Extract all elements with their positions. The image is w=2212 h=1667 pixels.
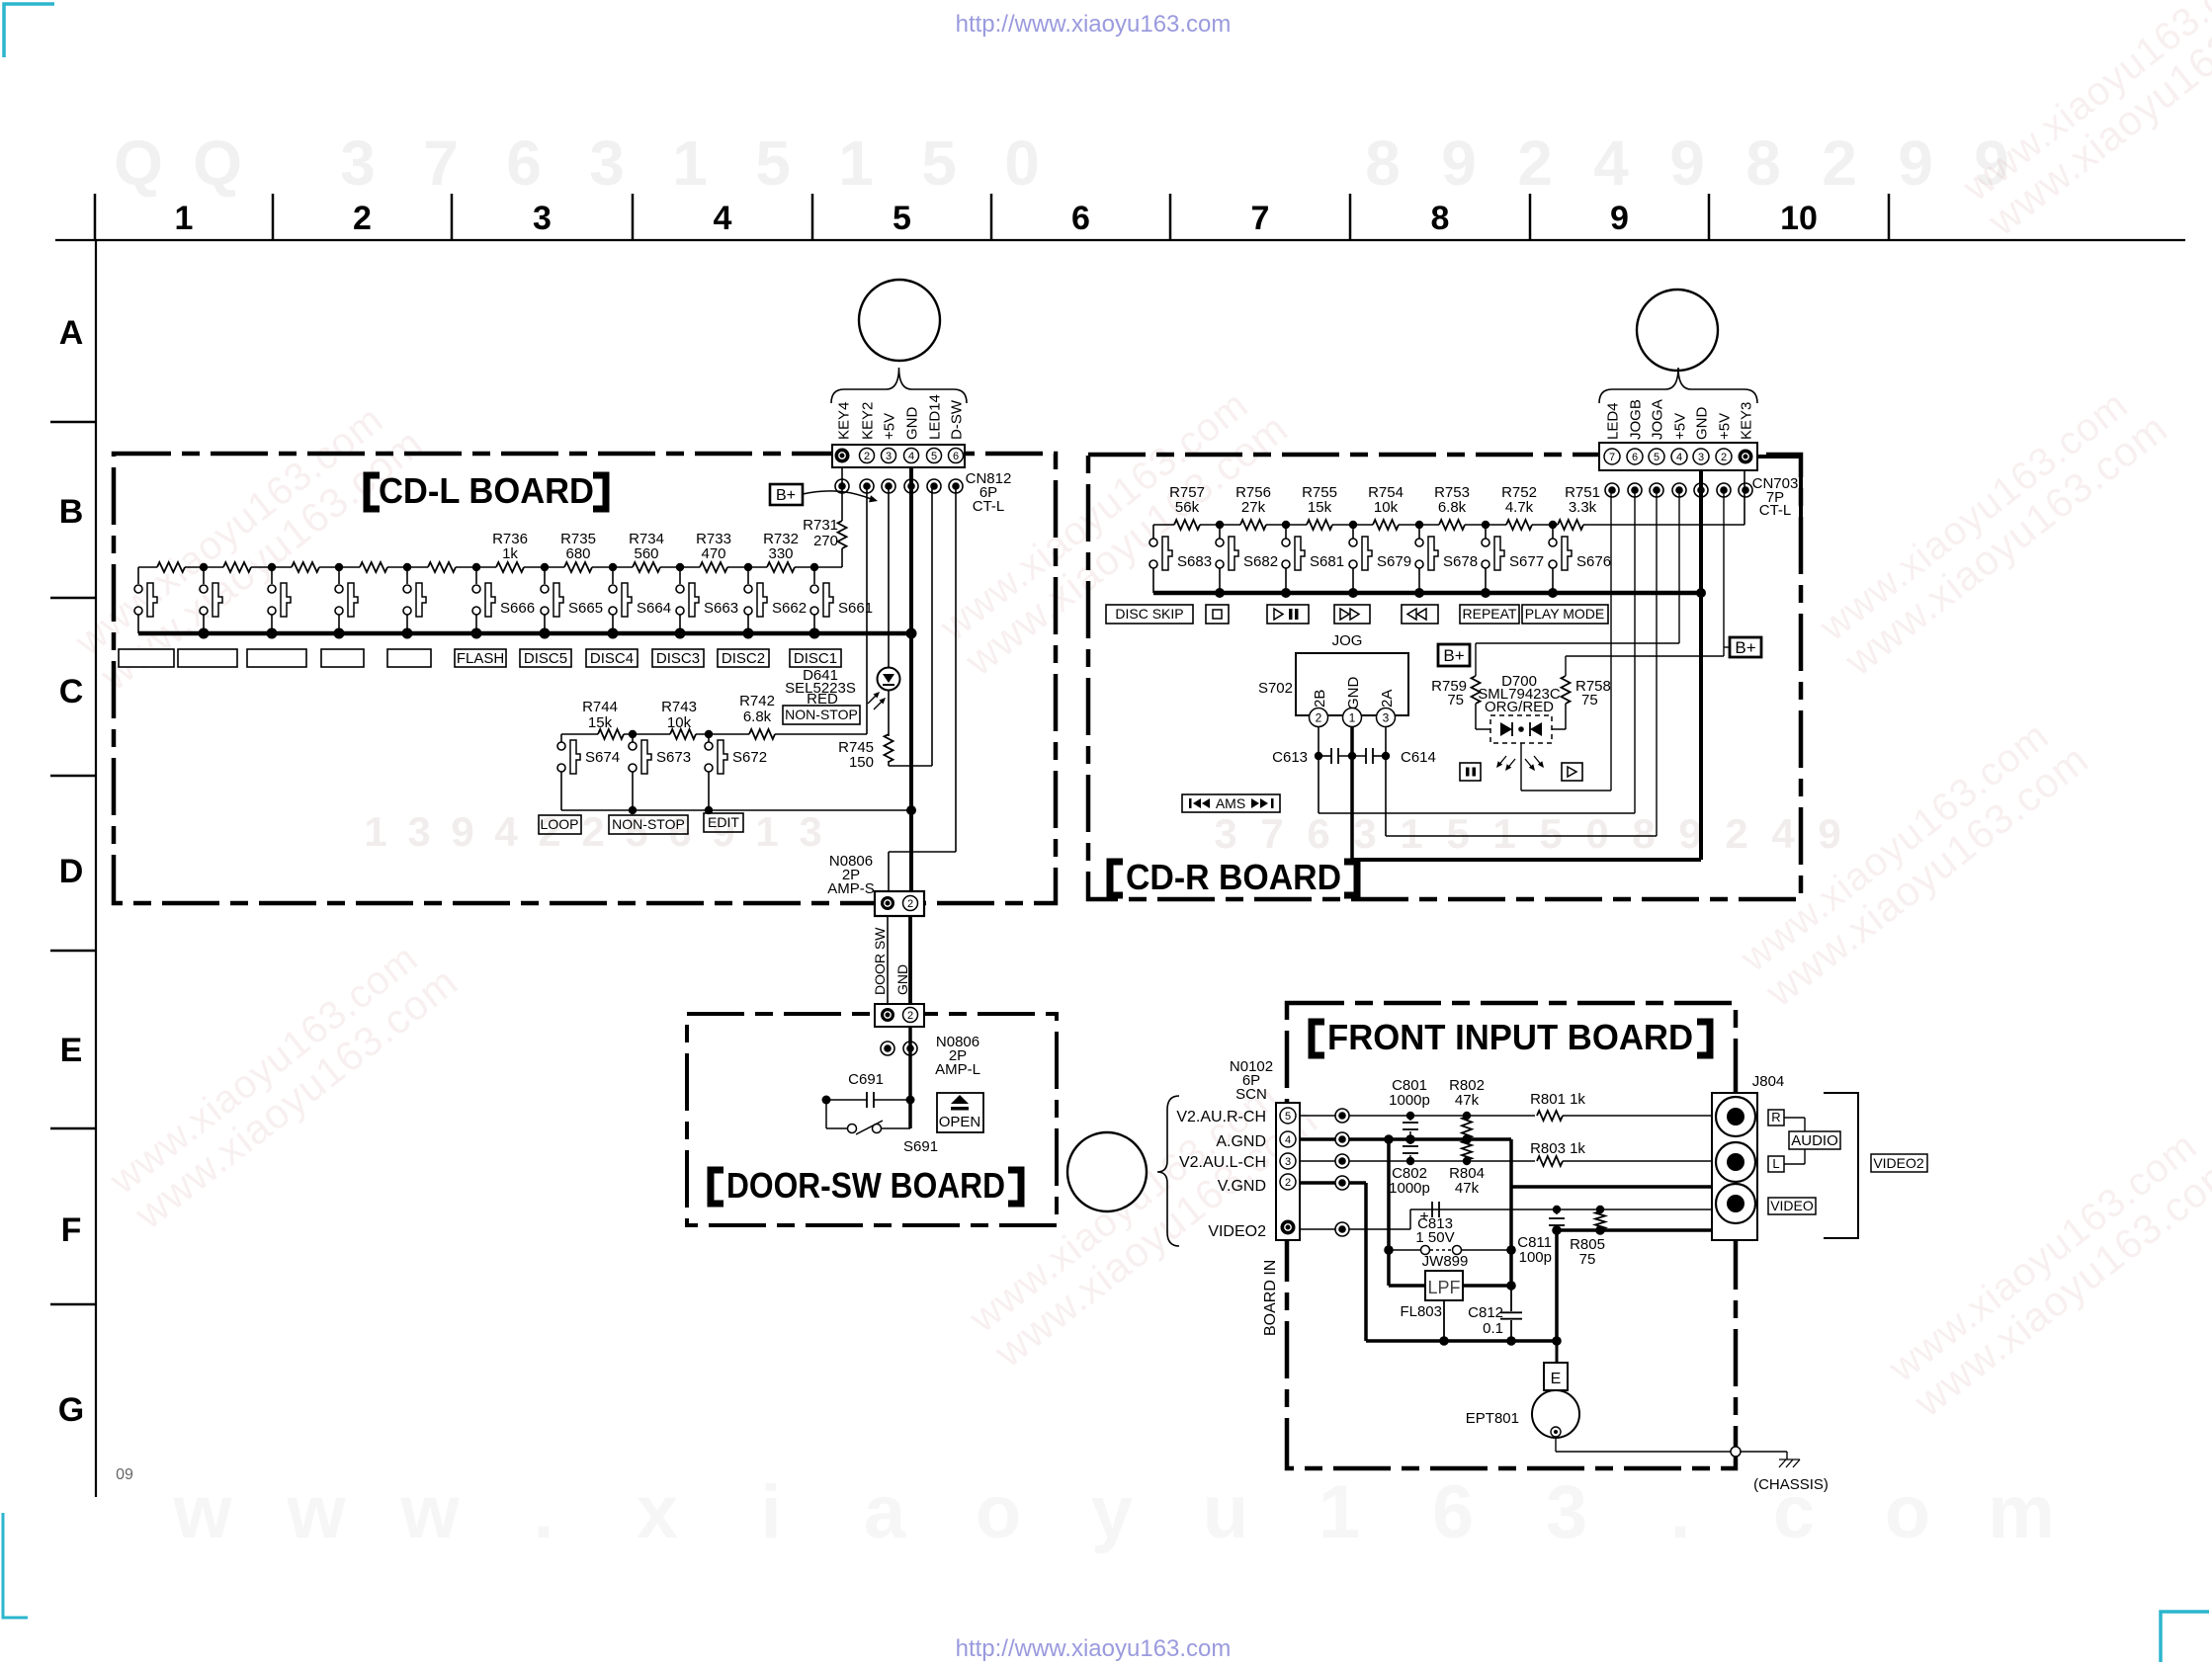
svg-text:GND: GND (1694, 407, 1711, 441)
svg-text:F: F (61, 1211, 82, 1249)
svg-text:1: 1 (175, 200, 194, 237)
svg-text:9: 9 (451, 808, 473, 855)
svg-text:09: 09 (116, 1466, 133, 1483)
svg-text:1 50V: 1 50V (1415, 1229, 1454, 1246)
svg-text:9: 9 (1678, 810, 1701, 857)
svg-text:6.8k: 6.8k (743, 708, 772, 725)
svg-text:FL803: FL803 (1400, 1303, 1442, 1320)
svg-text:5: 5 (921, 127, 957, 199)
svg-text:3: 3 (1383, 710, 1390, 724)
svg-text:3: 3 (589, 127, 625, 199)
svg-text:1k: 1k (502, 545, 518, 562)
svg-text:S676: S676 (1576, 553, 1611, 570)
svg-text:L: L (1772, 1156, 1779, 1171)
svg-text:1: 1 (1349, 710, 1356, 724)
svg-text:.: . (533, 1470, 553, 1554)
svg-text:3: 3 (1698, 452, 1704, 463)
svg-text:DISC5: DISC5 (524, 650, 567, 667)
svg-text:9: 9 (1441, 127, 1477, 199)
svg-text:GND: GND (894, 964, 910, 995)
svg-text:2: 2 (907, 1010, 913, 1022)
svg-text:GND: GND (904, 407, 921, 441)
svg-text:6: 6 (1632, 452, 1638, 463)
svg-text:+5V: +5V (1672, 413, 1689, 440)
svg-text:7: 7 (1609, 452, 1615, 463)
svg-text:2: 2 (907, 898, 913, 910)
svg-text:6.8k: 6.8k (1438, 499, 1467, 516)
svg-text:5: 5 (1654, 452, 1659, 463)
svg-text:R803 1k: R803 1k (1530, 1140, 1585, 1157)
svg-text:w: w (399, 1470, 460, 1554)
svg-text:4.7k: 4.7k (1505, 499, 1534, 516)
svg-text:S663: S663 (704, 600, 738, 617)
svg-text:DOOR SW: DOOR SW (872, 927, 888, 995)
svg-text:o: o (976, 1470, 1021, 1554)
svg-text:R744: R744 (582, 699, 618, 715)
svg-text:10k: 10k (667, 714, 692, 731)
svg-text:8: 8 (1632, 810, 1655, 857)
svg-text:B+: B+ (1735, 638, 1755, 657)
svg-text:C614: C614 (1401, 749, 1436, 766)
svg-text:i: i (760, 1470, 781, 1554)
svg-text:S681: S681 (1310, 553, 1344, 570)
svg-text:LOOP: LOOP (541, 816, 579, 832)
svg-text:S673: S673 (656, 749, 691, 766)
svg-text:w: w (286, 1470, 346, 1554)
svg-text:+5V: +5V (882, 413, 898, 440)
svg-text:4: 4 (494, 808, 518, 855)
svg-text:4: 4 (714, 200, 732, 237)
svg-text:2: 2 (1822, 127, 1857, 199)
svg-text:LED4: LED4 (1605, 402, 1622, 440)
svg-text:JOGB: JOGB (1628, 399, 1645, 440)
svg-text:1: 1 (838, 127, 874, 199)
svg-text:9: 9 (1610, 200, 1629, 237)
svg-text:S683: S683 (1177, 553, 1212, 570)
svg-text:2: 2 (1725, 810, 1747, 857)
svg-text:S678: S678 (1443, 553, 1478, 570)
svg-text:0: 0 (1585, 810, 1608, 857)
svg-text:KEY4: KEY4 (836, 402, 853, 440)
svg-text:1: 1 (1400, 810, 1422, 857)
svg-text:3: 3 (407, 808, 430, 855)
svg-text:S679: S679 (1377, 553, 1411, 570)
svg-text:V.GND: V.GND (1218, 1178, 1266, 1195)
svg-text:PLAY MODE: PLAY MODE (1525, 606, 1604, 622)
svg-text:AUDIO: AUDIO (1791, 1132, 1838, 1149)
svg-text:27k: 27k (1241, 499, 1266, 516)
svg-text:E: E (60, 1032, 83, 1069)
svg-text:6: 6 (1071, 200, 1090, 237)
svg-text:0.1: 0.1 (1483, 1320, 1503, 1337)
svg-text:7: 7 (1260, 810, 1283, 857)
svg-text:2: 2 (581, 808, 604, 855)
svg-text:CD-R BOARD: CD-R BOARD (1126, 857, 1341, 897)
svg-text:DISC4: DISC4 (590, 650, 634, 667)
svg-text:C812: C812 (1468, 1304, 1503, 1321)
svg-text:4: 4 (1771, 810, 1795, 857)
svg-text:B+: B+ (776, 487, 796, 504)
svg-text:7: 7 (423, 127, 459, 199)
svg-text:10: 10 (1780, 200, 1818, 237)
svg-text:6: 6 (953, 451, 959, 462)
svg-text:6: 6 (1307, 810, 1329, 857)
svg-text:5: 5 (1446, 810, 1469, 857)
svg-text:3: 3 (1214, 810, 1236, 857)
svg-text:AMP-S: AMP-S (827, 880, 875, 897)
svg-text:C: C (59, 673, 84, 710)
svg-text:LPF: LPF (1427, 1278, 1460, 1297)
svg-text:3: 3 (1353, 810, 1376, 857)
svg-text:Q: Q (193, 127, 242, 199)
svg-text:9: 9 (1669, 127, 1705, 199)
svg-text:0: 0 (1004, 127, 1040, 199)
svg-text:G: G (58, 1391, 84, 1429)
svg-text:JW899: JW899 (1422, 1253, 1469, 1270)
svg-text:a: a (864, 1470, 906, 1554)
svg-text:3.3k: 3.3k (1569, 499, 1597, 516)
svg-text:JOG: JOG (1332, 632, 1363, 649)
svg-text:2A: 2A (1379, 690, 1396, 708)
svg-text:(CHASSIS): (CHASSIS) (1753, 1476, 1829, 1493)
svg-text:8: 8 (1365, 127, 1401, 199)
svg-text:LED14: LED14 (927, 394, 944, 440)
svg-text:A: A (59, 314, 84, 352)
svg-text:BOARD IN: BOARD IN (1262, 1260, 1279, 1336)
svg-text:CD-L BOARD: CD-L BOARD (379, 470, 594, 511)
svg-text:NON-STOP: NON-STOP (785, 707, 858, 722)
svg-text:DISC1: DISC1 (794, 650, 837, 667)
svg-text:4: 4 (1593, 127, 1629, 199)
svg-text:100p: 100p (1519, 1249, 1552, 1266)
svg-text:5: 5 (755, 127, 791, 199)
svg-text:x: x (637, 1470, 678, 1554)
svg-text:DOOR-SW BOARD: DOOR-SW BOARD (726, 1165, 1005, 1206)
svg-text:EDIT: EDIT (708, 814, 739, 830)
svg-text:AMS: AMS (1216, 795, 1245, 811)
svg-text:S702: S702 (1258, 680, 1293, 697)
svg-text:75: 75 (1581, 692, 1598, 708)
svg-text:m: m (1988, 1470, 2055, 1554)
svg-text:KEY2: KEY2 (860, 402, 877, 440)
svg-text:R731: R731 (803, 517, 838, 534)
svg-text:R: R (1771, 1110, 1780, 1125)
svg-text:680: 680 (565, 545, 590, 562)
svg-text:OPEN: OPEN (939, 1114, 981, 1130)
svg-text:FLASH: FLASH (457, 650, 504, 667)
svg-text:E: E (1551, 1371, 1562, 1387)
svg-text:S691: S691 (903, 1138, 938, 1155)
svg-text:V2.AU.R-CH: V2.AU.R-CH (1176, 1109, 1266, 1125)
svg-text:CT-L: CT-L (973, 498, 1005, 515)
svg-text:GND: GND (1345, 677, 1362, 710)
svg-text:15k: 15k (1308, 499, 1332, 516)
svg-text:3: 3 (533, 200, 552, 237)
svg-text:o: o (1885, 1470, 1930, 1554)
svg-text:S664: S664 (637, 600, 671, 617)
svg-text:DISC SKIP: DISC SKIP (1115, 606, 1183, 622)
svg-text:EPT801: EPT801 (1466, 1410, 1519, 1427)
svg-text:10k: 10k (1374, 499, 1399, 516)
svg-text:http://www.xiaoyu163.com: http://www.xiaoyu163.com (956, 1635, 1232, 1662)
svg-text:1000p: 1000p (1389, 1180, 1430, 1197)
svg-text:JOGA: JOGA (1650, 399, 1666, 440)
svg-text:1: 1 (364, 808, 386, 855)
svg-text:56k: 56k (1175, 499, 1200, 516)
svg-text:1000p: 1000p (1389, 1092, 1430, 1109)
svg-text:VIDEO2: VIDEO2 (1208, 1223, 1266, 1240)
svg-text:330: 330 (768, 545, 793, 562)
svg-text:CT-L: CT-L (1759, 502, 1792, 519)
svg-text:3: 3 (1546, 1470, 1587, 1554)
svg-text:D-SW: D-SW (949, 399, 966, 440)
svg-text:8: 8 (1745, 127, 1781, 199)
svg-text:75: 75 (1579, 1251, 1596, 1268)
svg-text:2: 2 (1316, 710, 1322, 724)
svg-text:S665: S665 (568, 600, 603, 617)
svg-text:5: 5 (893, 200, 911, 237)
svg-text:V2.AU.L-CH: V2.AU.L-CH (1179, 1154, 1266, 1171)
svg-text:75: 75 (1447, 692, 1464, 708)
svg-text:S682: S682 (1243, 553, 1278, 570)
svg-text:DISC2: DISC2 (722, 650, 765, 667)
svg-text:S672: S672 (732, 749, 767, 766)
svg-text:.: . (1669, 1470, 1690, 1554)
svg-text:3: 3 (340, 127, 376, 199)
svg-text:270: 270 (813, 533, 838, 549)
svg-text:7: 7 (1251, 200, 1270, 237)
svg-text:http://www.xiaoyu163.com: http://www.xiaoyu163.com (956, 11, 1232, 38)
svg-text:8: 8 (1431, 200, 1450, 237)
svg-text:5: 5 (1285, 1111, 1291, 1123)
svg-text:AMP-L: AMP-L (935, 1061, 980, 1078)
svg-text:15k: 15k (588, 714, 613, 731)
svg-text:3: 3 (799, 808, 821, 855)
svg-text:1: 1 (1319, 1470, 1360, 1554)
svg-text:9: 9 (1898, 127, 1933, 199)
svg-text:2B: 2B (1312, 690, 1328, 708)
svg-text:KEY3: KEY3 (1739, 402, 1755, 440)
svg-text:S677: S677 (1509, 553, 1544, 570)
svg-text:1: 1 (672, 127, 708, 199)
svg-text:560: 560 (634, 545, 658, 562)
svg-text:FRONT INPUT BOARD: FRONT INPUT BOARD (1327, 1017, 1693, 1057)
svg-text:VIDEO: VIDEO (1770, 1198, 1814, 1213)
svg-text:Q: Q (114, 127, 163, 199)
svg-text:C691: C691 (848, 1071, 884, 1088)
svg-text:+5V: +5V (1717, 413, 1734, 440)
svg-text:47k: 47k (1455, 1180, 1480, 1197)
svg-text:5: 5 (931, 451, 937, 462)
svg-text:150: 150 (849, 754, 874, 771)
svg-text:470: 470 (701, 545, 725, 562)
svg-text:R742: R742 (739, 693, 775, 709)
svg-text:5: 5 (1539, 810, 1562, 857)
svg-text:A.GND: A.GND (1216, 1133, 1266, 1150)
svg-text:S666: S666 (500, 600, 535, 617)
svg-text:R743: R743 (661, 699, 697, 715)
svg-text:REPEAT: REPEAT (1463, 606, 1517, 622)
svg-text:w: w (172, 1470, 232, 1554)
svg-text:S662: S662 (772, 600, 807, 617)
svg-text:J804: J804 (1752, 1073, 1785, 1090)
svg-text:2: 2 (864, 451, 870, 462)
svg-text:3: 3 (886, 451, 892, 462)
svg-text:9: 9 (1818, 810, 1840, 857)
svg-text:C613: C613 (1272, 749, 1308, 766)
svg-text:4: 4 (1676, 452, 1682, 463)
svg-text:4: 4 (908, 451, 914, 462)
svg-text:6: 6 (506, 127, 542, 199)
svg-text:2: 2 (1721, 452, 1727, 463)
svg-text:2: 2 (353, 200, 372, 237)
svg-text:u: u (1203, 1470, 1248, 1554)
svg-text:1: 1 (755, 808, 778, 855)
svg-text:VIDEO2: VIDEO2 (1873, 1155, 1924, 1171)
svg-text:R801 1k: R801 1k (1530, 1091, 1585, 1108)
svg-text:NON-STOP: NON-STOP (612, 816, 685, 832)
svg-text:6: 6 (1432, 1470, 1474, 1554)
svg-text:SCN: SCN (1235, 1086, 1267, 1103)
svg-text:ORG/RED: ORG/RED (1485, 699, 1554, 715)
svg-text:1: 1 (1492, 810, 1515, 857)
svg-text:4: 4 (1285, 1134, 1291, 1146)
svg-text:B: B (59, 493, 84, 531)
svg-text:47k: 47k (1455, 1092, 1480, 1109)
svg-text:D: D (59, 853, 84, 890)
svg-text:S674: S674 (585, 749, 620, 766)
svg-text:DISC3: DISC3 (656, 650, 700, 667)
svg-text:2: 2 (1517, 127, 1553, 199)
svg-text:y: y (1091, 1470, 1133, 1554)
svg-text:3: 3 (1285, 1156, 1291, 1168)
svg-text:B+: B+ (1443, 646, 1464, 665)
svg-text:2: 2 (1285, 1177, 1291, 1189)
